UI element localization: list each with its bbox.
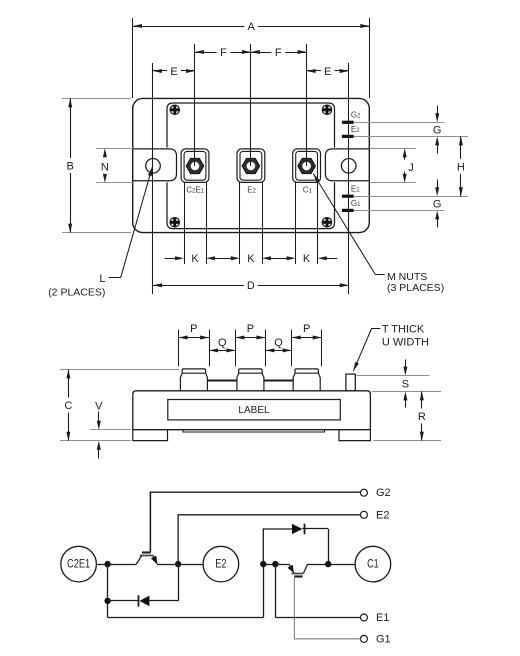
wire diode D2 cathode-side up to node B xyxy=(178,564,180,601)
terminal G2 xyxy=(360,489,367,496)
svg-text:E2: E2 xyxy=(376,509,389,521)
E2 terminal M nut xyxy=(242,158,260,173)
svg-text:K: K xyxy=(303,253,311,265)
C1 terminal pocket square xyxy=(293,149,321,183)
wire diode D1 anode branch xyxy=(263,529,292,564)
lid plateau segment right xyxy=(264,380,293,382)
lid plateau segment left xyxy=(207,380,237,382)
dimension A xyxy=(133,21,369,33)
svg-text:C: C xyxy=(64,400,72,412)
svg-text:Q: Q xyxy=(218,337,227,349)
svg-text:K: K xyxy=(191,253,199,265)
svg-text:B: B xyxy=(67,160,74,172)
label L (2 PLACES) xyxy=(48,273,105,299)
svg-text:A: A xyxy=(247,21,255,33)
svg-text:F: F xyxy=(275,47,282,59)
terminal bump cap xyxy=(182,369,205,373)
svg-text:P: P xyxy=(190,323,197,335)
extension line P-Q xyxy=(235,330,237,367)
wire G1 net xyxy=(294,577,360,639)
dimension E left xyxy=(153,66,195,78)
terminal E2 xyxy=(203,546,239,582)
terminal bump pedestal xyxy=(180,373,207,391)
leader line G2 pin xyxy=(354,122,445,124)
svg-text:U WIDTH: U WIDTH xyxy=(382,336,429,348)
leader line E2 pin xyxy=(354,136,468,138)
dimension J xyxy=(403,148,414,183)
diode D2 xyxy=(108,595,179,606)
extension line P-Q xyxy=(209,330,211,367)
C2E1 terminal M nut xyxy=(186,158,204,173)
svg-text:J: J xyxy=(408,162,414,174)
dimension Q right xyxy=(265,337,291,353)
terminal E2 sense xyxy=(360,511,367,518)
svg-text:N: N xyxy=(101,161,109,173)
node F junction xyxy=(325,561,331,567)
extension line C bottom xyxy=(60,440,131,442)
terminal label C1 xyxy=(303,186,313,195)
svg-text:E2: E2 xyxy=(215,556,226,570)
dimension B xyxy=(67,98,74,232)
leader line T U tab xyxy=(353,328,380,371)
dimension D xyxy=(153,280,349,292)
top view module body outline xyxy=(133,98,370,232)
wire bottom C2E1 net xyxy=(108,617,264,619)
svg-text:G: G xyxy=(433,198,442,210)
gate pin G1 xyxy=(342,209,354,212)
extension line P-Q xyxy=(291,330,293,367)
terminal label E2 xyxy=(247,186,256,195)
svg-text:G: G xyxy=(433,125,442,137)
terminal C2E1 xyxy=(61,546,97,582)
svg-text:D: D xyxy=(247,280,255,292)
emitter pin E2 xyxy=(342,135,354,138)
left mounting hole xyxy=(146,159,161,174)
right mounting ear pocket xyxy=(325,149,369,181)
svg-text:F: F xyxy=(220,47,227,59)
extension line S lower xyxy=(372,391,441,393)
extension line A right xyxy=(369,18,371,98)
leader line L xyxy=(109,167,153,278)
wire Q2 emitter to node B xyxy=(157,564,203,566)
transistor Q2 gate lead xyxy=(150,492,152,552)
wire node E down to E1 xyxy=(275,564,277,617)
extension line K xyxy=(239,182,241,265)
C1 terminal M nut xyxy=(298,158,316,173)
svg-text:(2 PLACES): (2 PLACES) xyxy=(48,287,105,299)
centerline terminal C1 xyxy=(306,44,308,166)
svg-text:P: P xyxy=(303,323,310,335)
svg-text:E1: E1 xyxy=(376,612,389,624)
extension line K xyxy=(317,182,319,265)
label E1 xyxy=(376,612,389,624)
svg-text:T THICK: T THICK xyxy=(382,323,425,335)
extension line C top xyxy=(60,369,179,371)
leader line G1 pin xyxy=(354,210,445,212)
transistor Q2 emitter arrow xyxy=(151,556,158,565)
centerline terminal C2E1 xyxy=(194,44,196,166)
leader line M nuts xyxy=(313,174,385,275)
centerline right mounting hole xyxy=(348,63,350,294)
label box xyxy=(168,400,340,420)
wire bottom net up to node D xyxy=(263,564,265,617)
node D junction xyxy=(260,561,266,567)
extension line J lower xyxy=(370,182,416,184)
dimension K middle xyxy=(215,253,271,265)
extension line J upper xyxy=(370,148,416,150)
corner screw xyxy=(322,105,331,114)
gate tab side view xyxy=(346,374,355,391)
svg-text:S: S xyxy=(402,378,409,390)
dimension H xyxy=(457,136,465,196)
transistor Q2 gate bar xyxy=(142,551,151,553)
extension line R bottom xyxy=(374,440,442,442)
svg-text:E: E xyxy=(170,66,177,78)
LABEL text xyxy=(238,405,270,416)
extension line P-Q xyxy=(265,330,267,367)
gate pin G2 xyxy=(342,121,354,124)
label G1 xyxy=(376,633,391,645)
extension line S upper xyxy=(357,375,430,377)
dimension Q left xyxy=(209,337,235,353)
extension line P-Q xyxy=(178,330,180,367)
wire node D to node E xyxy=(263,564,275,566)
corner screw xyxy=(170,105,179,114)
top view raised lid outline upper part xyxy=(167,103,335,148)
terminal label C2E1 xyxy=(186,186,204,195)
centerline left mounting hole xyxy=(152,63,154,294)
terminal bump cap xyxy=(239,369,262,373)
terminal bump cap xyxy=(295,369,318,373)
dimension R xyxy=(418,391,426,440)
wire G2 net xyxy=(150,492,360,552)
svg-text:L: L xyxy=(99,273,105,285)
dimension S xyxy=(402,360,409,408)
node B junction xyxy=(175,561,181,567)
dimension C xyxy=(64,369,72,440)
wire E1 net xyxy=(275,617,360,619)
extension line B bottom xyxy=(62,232,131,234)
extension line K xyxy=(295,182,297,265)
extension line A left xyxy=(132,18,134,98)
svg-text:Q: Q xyxy=(274,337,283,349)
wire E2 sense net xyxy=(178,515,360,564)
dimension P middle xyxy=(235,323,265,340)
top view raised lid outline lower part xyxy=(167,182,335,228)
extension line B top xyxy=(62,98,131,100)
wire Q1 collector to C1 xyxy=(308,564,356,566)
extension line N upper xyxy=(96,148,133,150)
terminal E1 xyxy=(360,614,367,621)
gate pin G1 label xyxy=(351,199,361,208)
svg-text:C1: C1 xyxy=(367,556,379,570)
terminal G1 xyxy=(360,635,367,642)
terminal bump pedestal xyxy=(237,373,264,391)
label T THICK U WIDTH xyxy=(382,323,429,348)
dimension K left xyxy=(165,253,216,265)
dimension E right xyxy=(307,66,349,78)
gate pin G2 label xyxy=(351,111,361,120)
wire diode D1 cathode down to node F xyxy=(328,529,330,564)
svg-text:K: K xyxy=(247,253,255,265)
wire C2E1 to node A xyxy=(96,564,136,566)
svg-text:R: R xyxy=(418,411,426,423)
transistor Q1 gate bar xyxy=(294,575,302,577)
dimension N xyxy=(101,148,109,183)
transistor Q1 emitter arrow xyxy=(287,564,293,573)
transistor Q1 collector lead xyxy=(304,564,308,573)
svg-text:G1: G1 xyxy=(376,633,391,645)
label G2 xyxy=(376,487,391,499)
side view left foot xyxy=(133,430,168,441)
centerline terminal E2 xyxy=(250,44,252,166)
node E junction xyxy=(272,561,278,567)
side view case outline xyxy=(133,391,371,430)
svg-text:P: P xyxy=(247,323,254,335)
terminal bump pedestal xyxy=(293,373,320,391)
side view right foot xyxy=(339,430,370,441)
terminal C1 xyxy=(355,546,391,582)
dimension F left xyxy=(195,47,251,59)
svg-text:E: E xyxy=(324,66,331,78)
left mounting ear pocket xyxy=(133,149,177,181)
extension line P-Q xyxy=(321,330,323,367)
extension line K xyxy=(184,182,186,265)
extension line K xyxy=(206,182,208,265)
side view baseplate xyxy=(183,430,325,432)
label M NUTS (3 PLACES) xyxy=(387,271,444,294)
dimension G lower xyxy=(433,180,442,228)
transistor Q1 channel bar xyxy=(292,573,304,575)
dimension V xyxy=(95,400,103,458)
emitter pin E1 xyxy=(342,195,354,198)
emitter pin E1 label xyxy=(351,185,360,194)
C2E1 terminal pocket square xyxy=(181,149,209,183)
svg-text:C2E1: C2E1 xyxy=(67,557,90,571)
extension line K xyxy=(262,182,264,265)
extension line N lower xyxy=(96,182,133,184)
transistor Q2 collector lead xyxy=(136,556,141,564)
wire node E to Q1 emitter xyxy=(275,564,289,566)
extension line V xyxy=(90,429,131,431)
dimension F right xyxy=(251,47,307,59)
corner screw xyxy=(170,218,179,227)
svg-text:G2: G2 xyxy=(376,487,391,499)
leader line E1 pin xyxy=(354,196,468,198)
dimension P right xyxy=(292,323,322,340)
E2 terminal pocket square xyxy=(237,149,265,183)
diode D1 xyxy=(292,524,328,535)
dimension G upper xyxy=(433,106,442,154)
svg-text:(3 PLACES): (3 PLACES) xyxy=(387,282,444,294)
right mounting hole xyxy=(341,159,356,174)
dimension K right xyxy=(271,253,338,265)
corner screw xyxy=(322,218,331,227)
label E2 xyxy=(376,509,389,521)
node C junction xyxy=(104,598,110,604)
svg-text:V: V xyxy=(95,400,103,412)
svg-text:H: H xyxy=(457,161,465,173)
node A junction xyxy=(104,561,110,567)
transistor Q2 channel bar xyxy=(140,555,153,557)
dimension P left xyxy=(179,323,210,340)
svg-text:LABEL: LABEL xyxy=(238,405,270,416)
emitter pin E2 label xyxy=(351,125,360,134)
wire node A down to diode D2 xyxy=(107,564,109,617)
